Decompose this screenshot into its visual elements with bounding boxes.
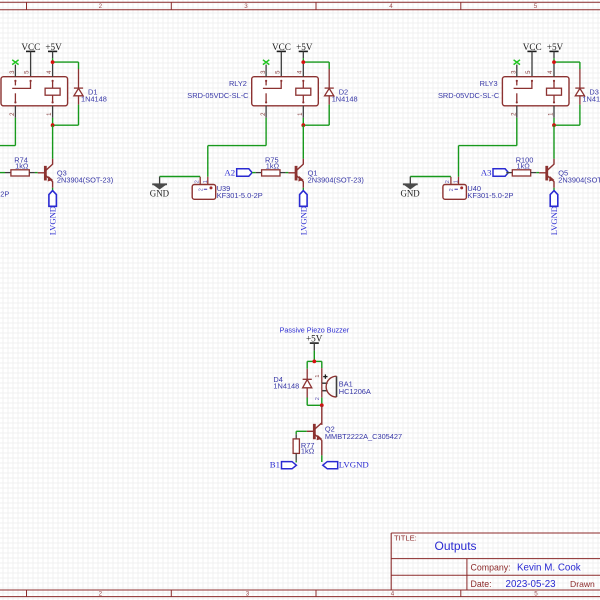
wire +5V to relay pin 4 bbox=[52, 58, 54, 62]
sheet frame bottom band bbox=[0, 589, 600, 591]
wire relay pin2 to connector bbox=[14, 118, 16, 146]
svg-text:5: 5 bbox=[526, 70, 532, 74]
svg-text:MMBT2222A_C305427: MMBT2222A_C305427 bbox=[325, 432, 402, 441]
svg-text:SRD-05VDC-SL-C: SRD-05VDC-SL-C bbox=[187, 91, 249, 100]
resistor R77 1k bbox=[295, 434, 297, 439]
wire +5V to relay pin 4 bbox=[302, 58, 304, 62]
relay RLY3 switch contact bbox=[516, 80, 518, 82]
resistor R100 1k bbox=[506, 172, 512, 174]
svg-text:1: 1 bbox=[454, 180, 460, 183]
svg-text:LVGND: LVGND bbox=[339, 459, 369, 469]
svg-text:Kevin M. Cook: Kevin M. Cook bbox=[517, 563, 581, 574]
svg-text:5: 5 bbox=[25, 70, 31, 74]
svg-text:HC1206A: HC1206A bbox=[339, 387, 371, 396]
svg-text:2: 2 bbox=[445, 180, 451, 183]
svg-text:3: 3 bbox=[244, 3, 248, 10]
wire diode anode to relay pin 1 bbox=[579, 105, 581, 126]
svg-text:RLY3: RLY3 bbox=[480, 79, 498, 88]
svg-text:4: 4 bbox=[548, 70, 554, 74]
svg-text:A2: A2 bbox=[224, 168, 235, 178]
relay RLY3 body SRD-05VDC-SL-C bbox=[502, 77, 569, 106]
relay driver circuit 1 (left, partially cut at sheet edge) bbox=[0, 0, 1, 1]
wire net label to resistor bbox=[506, 172, 508, 174]
relay RLY1 coil bbox=[52, 80, 54, 82]
wire relay pin4 junction to diode cathode bbox=[303, 61, 329, 63]
svg-text:2: 2 bbox=[99, 3, 103, 10]
transistor Q1 2N3904 bbox=[288, 172, 296, 174]
net label A3 bbox=[493, 169, 508, 177]
net flag B1 bbox=[282, 462, 297, 469]
svg-text:+5V: +5V bbox=[547, 42, 564, 52]
svg-text:1N4148: 1N4148 bbox=[582, 94, 600, 103]
wire buzzer pin 1 bbox=[321, 361, 323, 368]
relay RLY3 coil bbox=[553, 80, 555, 82]
wire base to R77 bbox=[296, 430, 307, 432]
no-connect X on relay pin 3 bbox=[514, 60, 520, 65]
relay RLY1 pin 1 bbox=[52, 106, 54, 118]
title block outline bbox=[391, 532, 600, 534]
svg-text:LVGND: LVGND bbox=[549, 206, 559, 235]
svg-text:2: 2 bbox=[199, 188, 205, 191]
relay RLY2 body SRD-05VDC-SL-C bbox=[252, 77, 319, 106]
net flag LVGND bbox=[49, 191, 57, 207]
svg-text:RLY2: RLY2 bbox=[229, 79, 247, 88]
wire diode anode to bottom junction bbox=[306, 398, 308, 406]
junction at +5V / pin 4 bbox=[301, 60, 305, 64]
net flag LVGND (buzzer) bbox=[323, 462, 338, 469]
wire relay pin1 down bbox=[553, 118, 555, 125]
svg-text:5: 5 bbox=[534, 591, 538, 598]
svg-text:2: 2 bbox=[315, 397, 321, 400]
no-connect X on relay pin 3 bbox=[12, 60, 18, 65]
wire relay pin2 to connector bbox=[516, 118, 518, 146]
wire R77 to B1 bbox=[295, 461, 297, 463]
diode D2 1N4148 flyback bbox=[328, 69, 330, 88]
svg-text:2: 2 bbox=[194, 180, 200, 183]
relay RLY1 body SRD-05VDC-SL-C bbox=[1, 77, 68, 106]
svg-text:KF301-5.0-2P: KF301-5.0-2P bbox=[217, 191, 263, 200]
net flag LVGND bbox=[550, 191, 558, 207]
relay RLY1 pin 3 bbox=[14, 65, 16, 77]
svg-text:Date:: Date: bbox=[471, 579, 492, 589]
svg-text:B1: B1 bbox=[270, 459, 280, 469]
svg-text:1kΩ: 1kΩ bbox=[266, 162, 280, 171]
junction below +5V bbox=[312, 360, 316, 364]
svg-text:SRD-05VDC-SL-C: SRD-05VDC-SL-C bbox=[438, 91, 500, 100]
wire emitter Q2 to LVGND bbox=[321, 455, 323, 462]
svg-text:A3: A3 bbox=[481, 168, 492, 178]
wire resistor to base bbox=[286, 172, 289, 174]
wire emitter to LVGND bbox=[52, 188, 54, 191]
diode D4 1N4148 bbox=[306, 369, 308, 380]
svg-text:1N4148: 1N4148 bbox=[332, 94, 358, 103]
junction at relay pin 1 / collector bbox=[51, 123, 55, 127]
net label A1 bbox=[0, 172, 5, 174]
wire GND to connector pin 2 bbox=[160, 176, 201, 178]
svg-text:1: 1 bbox=[315, 375, 321, 378]
resistor R75 1k bbox=[256, 172, 262, 174]
wire GND to connector pin 2 bbox=[410, 176, 451, 178]
svg-text:1: 1 bbox=[203, 180, 209, 183]
svg-text:VCC: VCC bbox=[21, 42, 40, 52]
diode D3 1N4148 flyback bbox=[579, 69, 581, 88]
svg-text:4: 4 bbox=[298, 70, 304, 74]
relay RLY3 pin 3 bbox=[516, 65, 518, 77]
svg-text:1N4148: 1N4148 bbox=[81, 94, 107, 103]
junction at relay pin 1 / collector bbox=[552, 123, 556, 127]
svg-text:2: 2 bbox=[449, 188, 455, 191]
net flag LVGND bbox=[300, 191, 308, 207]
wire diode anode to relay pin 1 bbox=[78, 105, 80, 126]
junction at +5V / pin 4 bbox=[552, 60, 556, 64]
svg-text:1N4148: 1N4148 bbox=[273, 382, 299, 391]
svg-text:+5V: +5V bbox=[296, 42, 313, 52]
relay RLY1 pin 4 bbox=[52, 64, 54, 77]
wire buzzer pin 2 to junction bbox=[321, 391, 323, 398]
relay RLY2 coil bbox=[302, 80, 304, 82]
svg-text:Drawn: Drawn bbox=[570, 579, 595, 589]
relay RLY3 pin 4 bbox=[553, 64, 555, 77]
svg-text:4: 4 bbox=[389, 3, 393, 10]
transistor Q3 2N3904 bbox=[38, 172, 46, 174]
relay RLY1 pin 2 bbox=[14, 106, 16, 118]
svg-text:4: 4 bbox=[391, 591, 395, 598]
svg-text:GND: GND bbox=[150, 189, 170, 199]
relay RLY2 pin 2 bbox=[265, 106, 267, 118]
no-connect X on relay pin 3 bbox=[263, 60, 269, 65]
relay RLY2 pin 3 bbox=[265, 65, 267, 77]
wire junction to transistor collector bbox=[302, 125, 304, 159]
svg-text:+5V: +5V bbox=[306, 333, 323, 343]
wire relay pin1 down bbox=[52, 118, 54, 125]
svg-text:VCC: VCC bbox=[523, 42, 542, 52]
wire relay pin4 junction to diode cathode bbox=[53, 61, 79, 63]
wire resistor to base bbox=[35, 172, 38, 174]
svg-text:LVGND: LVGND bbox=[298, 206, 308, 235]
wire junction to transistor collector bbox=[52, 125, 54, 159]
svg-text:1kΩ: 1kΩ bbox=[301, 446, 315, 455]
relay RLY2 pin 4 bbox=[302, 64, 304, 77]
svg-text:2N3904(SOT-23): 2N3904(SOT-23) bbox=[308, 175, 364, 184]
ground symbol GND bbox=[159, 177, 161, 184]
connector U40 KF301-5.0-2P bbox=[450, 177, 452, 185]
wire emitter to LVGND bbox=[553, 188, 555, 191]
buzzer BA1 HC1206A bbox=[322, 382, 328, 384]
transistor Q5 2N3904 bbox=[539, 172, 547, 174]
wire relay pin2 to connector bbox=[265, 118, 267, 146]
ground symbol GND bbox=[409, 177, 411, 184]
relay RLY2 pin 1 bbox=[302, 106, 304, 118]
svg-text:+5V: +5V bbox=[45, 42, 62, 52]
connector U39 KF301-5.0-2P bbox=[199, 177, 201, 185]
relay RLY3 pin 1 bbox=[553, 106, 555, 118]
svg-text:Outputs: Outputs bbox=[435, 539, 477, 553]
wire junction to transistor collector bbox=[553, 125, 555, 159]
wire net label to resistor bbox=[252, 172, 256, 174]
wire +5V to buzzer junction bbox=[313, 351, 315, 362]
wire relay pin1 down bbox=[302, 118, 304, 125]
svg-text:4: 4 bbox=[47, 70, 53, 74]
svg-text:2N3904(SOT-23): 2N3904(SOT-23) bbox=[57, 175, 113, 184]
svg-text:2P: 2P bbox=[0, 190, 9, 199]
buzzer plus sign bbox=[323, 376, 327, 378]
svg-text:KF301-5.0-2P: KF301-5.0-2P bbox=[467, 191, 513, 200]
net label A2 bbox=[237, 169, 252, 177]
relay RLY1 switch contact bbox=[14, 80, 16, 82]
wire to diode D4 cathode bbox=[306, 361, 308, 368]
wire emitter to LVGND bbox=[302, 188, 304, 191]
sheet frame top band bbox=[0, 1, 600, 3]
transistor Q2 MMBT2222A bbox=[321, 405, 323, 425]
svg-text:GND: GND bbox=[400, 189, 420, 199]
wire resistor to base bbox=[536, 172, 539, 174]
svg-text:5: 5 bbox=[534, 3, 538, 10]
svg-text:VCC: VCC bbox=[272, 42, 291, 52]
svg-text:2023-05-23: 2023-05-23 bbox=[506, 579, 557, 590]
wire relay pin4 junction to diode cathode bbox=[554, 61, 580, 63]
relay RLY2 switch contact bbox=[265, 80, 267, 82]
junction at relay pin 1 / collector bbox=[301, 123, 305, 127]
wire +5V to relay pin 4 bbox=[553, 58, 555, 62]
svg-text:1kΩ: 1kΩ bbox=[517, 162, 531, 171]
svg-text:5: 5 bbox=[275, 70, 281, 74]
svg-text:2: 2 bbox=[99, 591, 103, 598]
resistor R74 1k bbox=[5, 172, 11, 174]
wire diode anode to relay pin 1 bbox=[328, 105, 330, 126]
diode D1 1N4148 flyback bbox=[78, 69, 80, 88]
svg-text:Company:: Company: bbox=[471, 563, 511, 573]
svg-text:TITLE:: TITLE: bbox=[394, 534, 417, 543]
svg-text:LVGND: LVGND bbox=[48, 206, 58, 235]
svg-text:3: 3 bbox=[246, 591, 250, 598]
relay RLY3 pin 2 bbox=[516, 106, 518, 118]
svg-text:1kΩ: 1kΩ bbox=[15, 162, 29, 171]
junction at +5V / pin 4 bbox=[51, 60, 55, 64]
svg-text:2N3904(SOT-23): 2N3904(SOT-23) bbox=[558, 175, 600, 184]
junction at collector of Q2 bbox=[320, 403, 324, 407]
